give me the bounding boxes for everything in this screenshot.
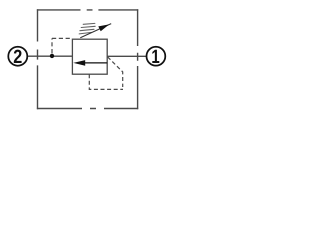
drain dashed segment to valve bottom — [89, 74, 123, 89]
enclosure boundary left edge — [37, 9, 39, 109]
enclosure boundary bottom edge — [37, 108, 138, 110]
label 2 — [14, 50, 22, 63]
label 1 — [152, 50, 159, 63]
port circle 1 — [147, 47, 166, 66]
port circle 2 — [8, 47, 27, 66]
pilot/drain dashed route on right: diagonal, down, left, up into valve bottom — [108, 57, 123, 87]
spring (zigzag) on top of valve — [79, 23, 95, 34]
flow arrow inside valve (points left, offset/closed position) — [84, 62, 107, 64]
enclosure boundary (long-dash box) top edge — [37, 9, 138, 11]
junction node dot on port 2 line — [50, 54, 54, 58]
wire: port 1 line from valve to circle — [107, 55, 146, 57]
valve envelope square — [72, 39, 107, 74]
adjustment arrow through spring — [80, 24, 111, 38]
wire: port 2 line from circle to valve — [27, 55, 72, 57]
pilot line (dashed) from junction up and to valve top-left — [52, 38, 72, 53]
enclosure boundary right edge — [137, 9, 139, 109]
